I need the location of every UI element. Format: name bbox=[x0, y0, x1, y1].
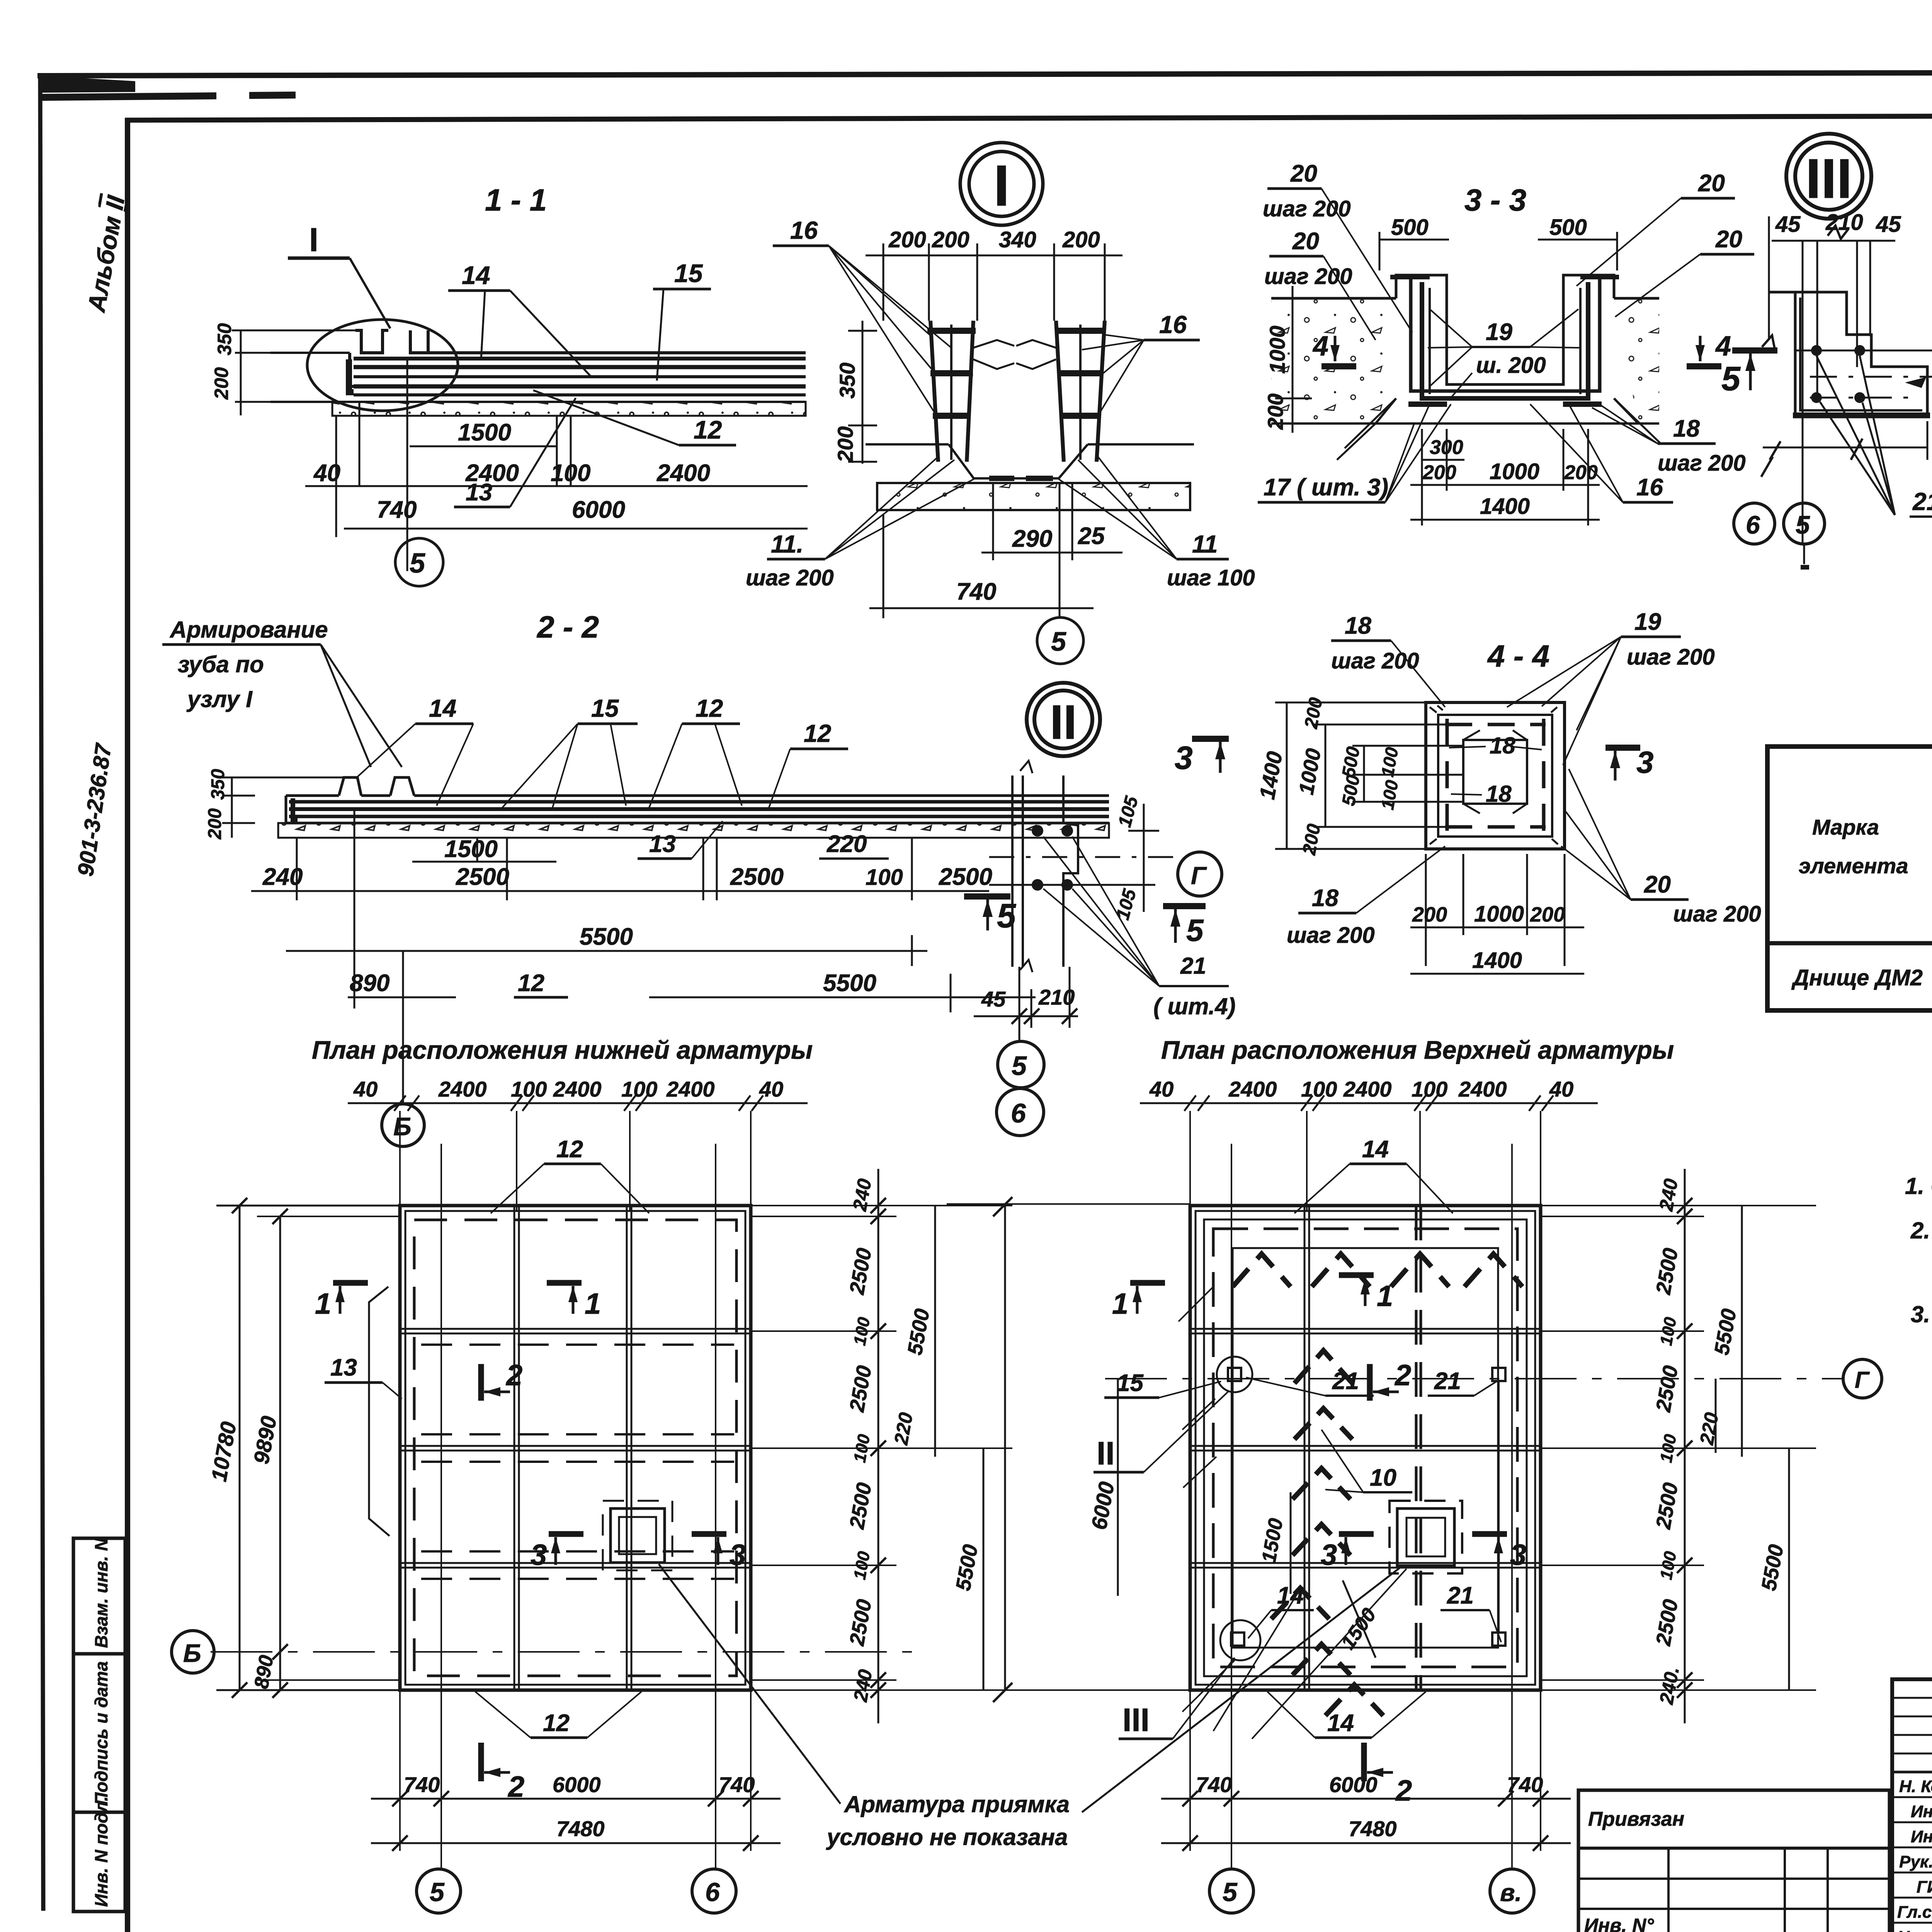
svg-text:11: 11 bbox=[1192, 530, 1218, 558]
svg-text:5500: 5500 bbox=[823, 970, 876, 997]
svg-text:21 ( шт.4): 21 ( шт.4) bbox=[1912, 488, 1932, 515]
steel table grid bbox=[1767, 747, 1932, 1010]
svg-text:1: 1 bbox=[585, 1287, 601, 1320]
svg-text:шаг 200: шаг 200 bbox=[1287, 923, 1375, 948]
svg-text:100: 100 bbox=[621, 1077, 657, 1101]
svg-text:12: 12 bbox=[694, 415, 722, 444]
svg-text:6: 6 bbox=[1746, 510, 1760, 539]
svg-text:Гл.спец.: Гл.спец. bbox=[1897, 1903, 1932, 1922]
steel table data row bbox=[1791, 965, 1932, 990]
svg-text:Нач.отд: Нач.отд bbox=[1897, 1928, 1932, 1932]
left margin vertical text: Альбом II bbox=[82, 193, 130, 315]
svg-text:290: 290 bbox=[1012, 526, 1052, 552]
label 12 bottom of lower plan bbox=[475, 1692, 641, 1738]
4-4 left dims 1400 1000 200 500 500 100 bbox=[1255, 696, 1464, 857]
svg-text:40: 40 bbox=[353, 1077, 378, 1101]
svg-text:Инв. N°: Инв. N° bbox=[1584, 1915, 1654, 1932]
svg-text:100: 100 bbox=[1301, 1077, 1337, 1101]
4-4 label 18 шаг 200 bottom left bbox=[1287, 846, 1445, 948]
priyamok square on upper plan bbox=[1389, 1501, 1462, 1573]
upper plan top dimension row bbox=[1140, 1077, 1598, 1210]
svg-text:III: III bbox=[1122, 1702, 1150, 1738]
4-4 label 20 шаг 200 right bbox=[1561, 769, 1761, 927]
upper reinforcement plan title bbox=[1161, 1036, 1674, 1064]
svg-text:Взам. инв. N: Взам. инв. N bbox=[91, 1538, 111, 1648]
label 14 top of upper plan bbox=[1294, 1136, 1453, 1213]
svg-text:15: 15 bbox=[591, 694, 619, 722]
svg-text:5: 5 bbox=[1012, 1051, 1027, 1081]
svg-text:200: 200 bbox=[1412, 903, 1447, 926]
svg-text:20: 20 bbox=[1698, 170, 1725, 197]
axis circle Б left of lower plan bbox=[172, 1631, 214, 1673]
svg-text:1500: 1500 bbox=[458, 419, 511, 446]
stamp signature names bbox=[1897, 1777, 1932, 1932]
detail node II circle bbox=[1027, 683, 1100, 756]
section 4-4 title bbox=[1487, 639, 1549, 673]
svg-text:1: 1 bbox=[1112, 1287, 1128, 1320]
svg-text:в.: в. bbox=[1500, 1879, 1522, 1906]
svg-text:21: 21 bbox=[1180, 953, 1206, 979]
marker 5 right of 2-2 bbox=[964, 896, 1016, 935]
svg-text:16: 16 bbox=[1159, 311, 1187, 338]
3-3 labels 20 20 right bbox=[1577, 170, 1754, 317]
svg-text:200: 200 bbox=[205, 808, 225, 840]
3-3 labels 20 шаг 200 left bbox=[1263, 160, 1412, 340]
svg-text:Рук. гр.: Рук. гр. bbox=[1899, 1852, 1932, 1871]
svg-text:зуба по: зуба по bbox=[178, 651, 264, 677]
3-3 bottom dims 300 200 1000 200 1400 bbox=[1410, 429, 1600, 526]
svg-text:I: I bbox=[309, 221, 318, 259]
outer scan border left bbox=[40, 74, 43, 1911]
svg-text:2: 2 bbox=[1395, 1774, 1412, 1807]
lower plan bottom dims bbox=[371, 1690, 781, 1851]
svg-text:340: 340 bbox=[999, 227, 1036, 252]
svg-text:шаг 200: шаг 200 bbox=[1264, 264, 1352, 289]
svg-text:15: 15 bbox=[1117, 1370, 1144, 1396]
svg-text:5: 5 bbox=[430, 1878, 445, 1907]
lower plan rectangle bbox=[400, 1206, 751, 1690]
svg-text:6000: 6000 bbox=[1329, 1772, 1378, 1797]
svg-text:200: 200 bbox=[1062, 227, 1100, 252]
node I top dimensions 200 200 340 200 bbox=[866, 227, 1122, 321]
svg-text:5500: 5500 bbox=[580, 923, 633, 950]
svg-text:шаг 200: шаг 200 bbox=[1658, 451, 1746, 476]
svg-text:6: 6 bbox=[1011, 1098, 1026, 1128]
svg-text:14: 14 bbox=[1362, 1136, 1389, 1163]
section 1-1 slab drawing bbox=[270, 320, 806, 416]
svg-text:II: II bbox=[1050, 696, 1077, 749]
4-4 inside labels 18 18 bbox=[1449, 733, 1542, 807]
svg-text:1400: 1400 bbox=[1472, 948, 1522, 973]
svg-text:2500: 2500 bbox=[730, 864, 784, 890]
svg-text:1000: 1000 bbox=[1490, 459, 1539, 484]
svg-text:740: 740 bbox=[377, 497, 417, 523]
upper plan right dimension chain bbox=[1541, 1169, 1816, 1723]
svg-text:Днище ДМ2: Днище ДМ2 bbox=[1791, 965, 1923, 990]
svg-text:3: 3 bbox=[1510, 1539, 1526, 1571]
svg-text:200: 200 bbox=[1564, 461, 1598, 484]
svg-text:5: 5 bbox=[1721, 359, 1741, 398]
svg-text:4: 4 bbox=[1715, 331, 1731, 362]
svg-text:Инв. N подл.: Инв. N подл. bbox=[91, 1796, 111, 1907]
svg-text:300: 300 bbox=[1430, 436, 1463, 459]
label 13 with bracket on lower plan bbox=[325, 1287, 402, 1536]
svg-text:1000: 1000 bbox=[1265, 326, 1289, 374]
svg-text:3: 3 bbox=[730, 1539, 746, 1571]
svg-text:шаг 200: шаг 200 bbox=[1263, 196, 1351, 221]
label 21 (шт.4) below node II bbox=[1043, 837, 1236, 1019]
svg-text:шаг 200: шаг 200 bbox=[1331, 648, 1419, 673]
svg-text:( шт.4): ( шт.4) bbox=[1153, 993, 1236, 1019]
svg-text:350: 350 bbox=[835, 362, 859, 398]
svg-text:6: 6 bbox=[705, 1878, 720, 1907]
svg-text:Марка: Марка bbox=[1812, 815, 1879, 839]
svg-text:890: 890 bbox=[350, 970, 389, 997]
axis circle Б under 2-2 bbox=[382, 1104, 424, 1146]
svg-text:ГИП: ГИП bbox=[1917, 1878, 1932, 1896]
axis circles 5 B bottom upper plan bbox=[1209, 1869, 1534, 1913]
3-3 label 19 ш.200 inside bbox=[1428, 309, 1580, 400]
svg-text:20: 20 bbox=[1292, 228, 1319, 255]
lower reinforcement plan title bbox=[312, 1036, 813, 1064]
node II dims 105 105 45 210 bbox=[974, 794, 1159, 1042]
svg-text:18: 18 bbox=[1486, 781, 1512, 807]
svg-text:13: 13 bbox=[649, 831, 676, 857]
svg-text:200: 200 bbox=[888, 227, 926, 252]
svg-text:Армирование: Армирование bbox=[169, 617, 328, 643]
svg-text:2: 2 bbox=[1394, 1359, 1411, 1392]
svg-text:Б: Б bbox=[183, 1639, 201, 1667]
svg-text:III: III bbox=[1806, 147, 1852, 210]
2-2 labels 14 15 12 12 bbox=[355, 694, 889, 859]
svg-text:12: 12 bbox=[804, 719, 831, 747]
svg-text:20: 20 bbox=[1644, 871, 1671, 898]
3-3 left vertical dims 1000 200 bbox=[1263, 286, 1312, 433]
4-4 labels 19 шаг 200 top right bbox=[1507, 609, 1715, 765]
svg-text:Инж.: Инж. bbox=[1911, 1827, 1932, 1846]
svg-text:18: 18 bbox=[1673, 415, 1700, 442]
upper plan chevron hook marks bbox=[1233, 1254, 1522, 1716]
section 2-2 title bbox=[536, 610, 599, 644]
svg-text:3. В месте расположения пр: 3. В месте расположения приямка арматуру… bbox=[1911, 1301, 1932, 1327]
svg-text:2400: 2400 bbox=[1343, 1077, 1392, 1101]
svg-text:200: 200 bbox=[833, 426, 857, 463]
svg-text:1: 1 bbox=[1377, 1280, 1393, 1313]
detail node III circle bbox=[1786, 134, 1871, 219]
lower plan top dimension row bbox=[348, 1077, 808, 1210]
svg-text:17 ( шт. 3): 17 ( шт. 3) bbox=[1264, 474, 1388, 501]
svg-text:1500: 1500 bbox=[444, 836, 498, 862]
svg-text:11.: 11. bbox=[771, 530, 803, 558]
svg-text:2400: 2400 bbox=[1458, 1077, 1507, 1101]
svg-text:18: 18 bbox=[1490, 733, 1515, 759]
label 12 top of lower plan bbox=[491, 1136, 649, 1213]
svg-text:200: 200 bbox=[1263, 393, 1287, 430]
svg-text:2400: 2400 bbox=[666, 1077, 715, 1101]
axis circles 6 5 under node III bbox=[1734, 503, 1825, 570]
svg-text:18: 18 bbox=[1312, 885, 1338, 912]
lower plan axes lines bbox=[211, 1144, 920, 1869]
svg-text:План расположения Верхней а: План расположения Верхней арматуры bbox=[1161, 1036, 1674, 1064]
svg-text:740: 740 bbox=[404, 1772, 440, 1797]
svg-text:5: 5 bbox=[1223, 1878, 1238, 1907]
svg-text:220: 220 bbox=[827, 831, 867, 857]
section 3-3 channel drawing bbox=[1271, 275, 1662, 460]
1-1 bottom dimension rows bbox=[305, 359, 808, 571]
svg-text:узлу I: узлу I bbox=[186, 686, 253, 712]
svg-text:240: 240 bbox=[262, 864, 303, 890]
svg-text:Инж.: Инж. bbox=[1911, 1802, 1932, 1821]
4-4 square section drawing bbox=[1426, 702, 1565, 849]
svg-text:6000: 6000 bbox=[572, 497, 625, 523]
svg-text:200: 200 bbox=[1422, 461, 1456, 484]
svg-text:3 - 3: 3 - 3 bbox=[1464, 183, 1526, 217]
svg-text:16: 16 bbox=[790, 216, 818, 244]
axis circle Г right of upper plan bbox=[1835, 1359, 1882, 1398]
svg-text:25: 25 bbox=[1078, 523, 1105, 549]
svg-text:5: 5 bbox=[1186, 913, 1204, 947]
upper plan rectangle nested borders bbox=[1190, 1206, 1541, 1690]
section 1-1 title bbox=[485, 183, 547, 217]
upper plan section markers 1 1 2 3 3 2 bbox=[1112, 1275, 1526, 1807]
svg-text:21: 21 bbox=[1447, 1582, 1474, 1609]
svg-text:Б: Б bbox=[393, 1112, 412, 1141]
svg-text:Подпись и дата: Подпись и дата bbox=[91, 1661, 111, 1805]
2-2 left vertical dims 350 200 bbox=[205, 769, 344, 840]
svg-text:Н. Контр: Н. Контр bbox=[1899, 1777, 1932, 1796]
svg-text:100: 100 bbox=[866, 865, 903, 890]
svg-text:12: 12 bbox=[543, 1710, 570, 1736]
axis circle 5 under section 1-1 bbox=[395, 538, 443, 586]
svg-text:2500: 2500 bbox=[456, 864, 509, 890]
svg-text:2400: 2400 bbox=[465, 460, 519, 486]
notes text block bbox=[1905, 1173, 1932, 1367]
svg-text:45: 45 bbox=[1876, 212, 1901, 237]
svg-text:ш. 200: ш. 200 bbox=[1476, 353, 1546, 378]
svg-text:2400: 2400 bbox=[656, 460, 710, 486]
svg-text:18: 18 bbox=[1345, 612, 1371, 639]
upper plan axis lines bbox=[1105, 1144, 1835, 1869]
node I label with leader bbox=[288, 221, 390, 328]
lower plan section markers bbox=[315, 1283, 746, 1803]
node I rebar cages bbox=[927, 321, 1105, 462]
svg-text:Г: Г bbox=[1855, 1367, 1870, 1393]
section 3-3 title bbox=[1464, 183, 1526, 217]
armirovanie zuba note bbox=[162, 617, 402, 767]
svg-text:Арматура приямка: Арматура приямка bbox=[844, 1791, 1070, 1817]
svg-text:14: 14 bbox=[1327, 1710, 1354, 1736]
privyazan table bottom left of stamp bbox=[1578, 1790, 1889, 1932]
svg-text:элемента: элемента bbox=[1799, 854, 1908, 878]
svg-text:19: 19 bbox=[1634, 609, 1661, 635]
node III corner wall plan bbox=[1769, 226, 1932, 415]
svg-text:1400: 1400 bbox=[1480, 494, 1530, 519]
svg-text:2. Защитный слой бетона: 2. Защитный слой бетона для нижней армат… bbox=[1910, 1218, 1932, 1243]
node III top dims 45 210 45 bbox=[1772, 210, 1901, 544]
svg-text:4 - 4: 4 - 4 bbox=[1487, 639, 1549, 673]
svg-text:3: 3 bbox=[1321, 1539, 1337, 1571]
1-1 labels 14 15 12 13 with leaders bbox=[448, 259, 736, 507]
svg-text:Г: Г bbox=[1191, 862, 1207, 889]
svg-text:19: 19 bbox=[1486, 319, 1512, 345]
svg-text:12: 12 bbox=[556, 1136, 583, 1163]
priyamok square on lower plan bbox=[603, 1501, 672, 1570]
node I labels 16 16 11 11 bbox=[746, 216, 1255, 590]
left margin vertical text: 901-3-236.87 bbox=[73, 741, 117, 878]
svg-text:500: 500 bbox=[1391, 215, 1429, 240]
svg-text:I: I bbox=[993, 153, 1010, 218]
svg-text:740: 740 bbox=[1196, 1772, 1232, 1797]
svg-text:500: 500 bbox=[1549, 215, 1587, 240]
svg-text:740: 740 bbox=[956, 578, 996, 605]
section arrow marker 4 left bbox=[1312, 331, 1356, 366]
svg-text:1 - 1: 1 - 1 bbox=[485, 183, 547, 217]
svg-text:200: 200 bbox=[211, 367, 232, 400]
4-4 bottom dims 200 1000 200 1400 bbox=[1410, 854, 1584, 974]
svg-text:4: 4 bbox=[1312, 331, 1328, 362]
svg-text:100: 100 bbox=[1412, 1077, 1447, 1101]
node I slab and tooth bottom bbox=[866, 444, 1194, 510]
section arrow marker 4 right bbox=[1687, 331, 1731, 366]
svg-text:12: 12 bbox=[518, 970, 544, 997]
axis circles 5 6 below node II bbox=[997, 1041, 1044, 1136]
svg-text:3: 3 bbox=[531, 1539, 547, 1571]
svg-text:740: 740 bbox=[1507, 1772, 1543, 1797]
outer scan border top bbox=[37, 71, 1932, 97]
svg-text:шаг 200: шаг 200 bbox=[1673, 901, 1761, 927]
steel table header texts bbox=[1799, 752, 1932, 932]
left margin stamp strip boxes bbox=[73, 1538, 125, 1912]
upper plan left dims 6000 bbox=[947, 1197, 1190, 1702]
4-4 section markers 3T T3 bbox=[1175, 739, 1654, 781]
node III bottom dim line bbox=[1763, 421, 1928, 460]
lower plan right dimension chain bbox=[751, 1169, 1012, 1723]
svg-text:100: 100 bbox=[511, 1077, 547, 1101]
svg-text:2500: 2500 bbox=[939, 864, 992, 890]
svg-text:45: 45 bbox=[981, 987, 1006, 1011]
svg-text:200: 200 bbox=[1530, 903, 1565, 926]
svg-text:шаг 200: шаг 200 bbox=[1627, 645, 1715, 670]
note armatura priyamka bbox=[659, 1564, 1400, 1850]
svg-text:2400: 2400 bbox=[438, 1077, 487, 1101]
svg-text:2: 2 bbox=[505, 1359, 522, 1392]
svg-text:100: 100 bbox=[551, 460, 590, 486]
svg-text:210: 210 bbox=[1038, 985, 1075, 1009]
axis circle 5 under node I bbox=[1037, 617, 1083, 664]
svg-text:13: 13 bbox=[330, 1354, 357, 1381]
svg-text:21: 21 bbox=[1434, 1368, 1461, 1395]
svg-text:350: 350 bbox=[214, 323, 235, 355]
section 2-2 slab drawing bbox=[278, 777, 1109, 838]
svg-text:5: 5 bbox=[1796, 510, 1810, 539]
svg-text:740: 740 bbox=[719, 1772, 755, 1797]
1-1 left vertical dimensions 350 200 bbox=[211, 323, 355, 415]
axis circles 5 6 bottom lower plan bbox=[417, 1869, 736, 1913]
svg-text:условно не показана: условно не показана bbox=[826, 1824, 1068, 1850]
svg-text:2 - 2: 2 - 2 bbox=[536, 610, 599, 644]
svg-text:1. Совместно с данным см: 1. Совместно с данным см. л.л. КЖ-2,3 bbox=[1905, 1173, 1932, 1199]
svg-text:План расположения нижней ар: План расположения нижней арматуры bbox=[312, 1036, 813, 1064]
svg-text:шаг 100: шаг 100 bbox=[1167, 565, 1255, 590]
svg-text:3: 3 bbox=[1636, 745, 1654, 779]
svg-text:40: 40 bbox=[1149, 1077, 1173, 1101]
svg-text:45: 45 bbox=[1775, 212, 1801, 237]
svg-text:12: 12 bbox=[696, 694, 723, 722]
svg-text:15: 15 bbox=[674, 259, 703, 287]
svg-text:20: 20 bbox=[1290, 160, 1317, 187]
upper plan corner weld plates bbox=[1217, 1357, 1505, 1660]
svg-text:200: 200 bbox=[932, 227, 969, 252]
3-3 top dims 500 500 bbox=[1379, 215, 1617, 270]
svg-text:5: 5 bbox=[1051, 626, 1066, 656]
svg-text:6000: 6000 bbox=[553, 1772, 601, 1797]
node III left dim and marker 5 bbox=[1721, 216, 1777, 398]
svg-text:40: 40 bbox=[313, 460, 340, 486]
upper plan labels 15 21 21 II 10 III 14 14 1500 bbox=[1094, 1287, 1501, 1739]
marker 5 below Г bbox=[1163, 906, 1206, 947]
stamp signature table bbox=[1892, 1679, 1932, 1932]
svg-text:Привязан: Привязан bbox=[1588, 1808, 1684, 1830]
svg-text:2400: 2400 bbox=[553, 1077, 602, 1101]
svg-text:II: II bbox=[1097, 1435, 1115, 1471]
svg-text:7480: 7480 bbox=[1349, 1816, 1397, 1841]
4-4 labels 18 шаг 200 top left bbox=[1331, 612, 1445, 707]
svg-text:7480: 7480 bbox=[556, 1816, 605, 1841]
svg-text:10: 10 bbox=[1370, 1464, 1396, 1491]
label 21 (шт.4) with leaders bbox=[1761, 356, 1932, 517]
node I left vertical dims 350 200 bbox=[833, 321, 877, 464]
svg-text:шаг 200: шаг 200 bbox=[746, 565, 834, 590]
svg-text:3: 3 bbox=[1175, 740, 1193, 776]
svg-text:16: 16 bbox=[1636, 474, 1663, 501]
svg-text:2400: 2400 bbox=[1228, 1077, 1277, 1101]
2-2 dimension rows bbox=[251, 809, 1036, 1104]
svg-text:5: 5 bbox=[410, 548, 425, 579]
axis circle Г right of node II bbox=[1178, 852, 1222, 896]
svg-text:1: 1 bbox=[315, 1287, 331, 1320]
axis circle 5 above node II bbox=[0, 0, 0, 0]
svg-text:350: 350 bbox=[208, 769, 228, 800]
detail node I circle bbox=[960, 143, 1043, 225]
node II corner wall section bbox=[989, 761, 1175, 972]
svg-text:21: 21 bbox=[1332, 1368, 1359, 1395]
3-3 labels 18 шаг 200, 16 right bbox=[1530, 402, 1746, 502]
node I bottom dims 290 25 740 bbox=[869, 483, 1122, 618]
svg-text:20: 20 bbox=[1715, 226, 1742, 253]
upper plan bottom dims bbox=[1161, 1690, 1571, 1851]
svg-text:14: 14 bbox=[429, 694, 456, 722]
svg-text:14: 14 bbox=[462, 261, 490, 289]
svg-text:1000: 1000 bbox=[1474, 901, 1524, 927]
lower plan left dims 10780 9890 890 bbox=[206, 1198, 400, 1698]
3-3 label 17 (шт.3) left bbox=[1258, 404, 1451, 502]
